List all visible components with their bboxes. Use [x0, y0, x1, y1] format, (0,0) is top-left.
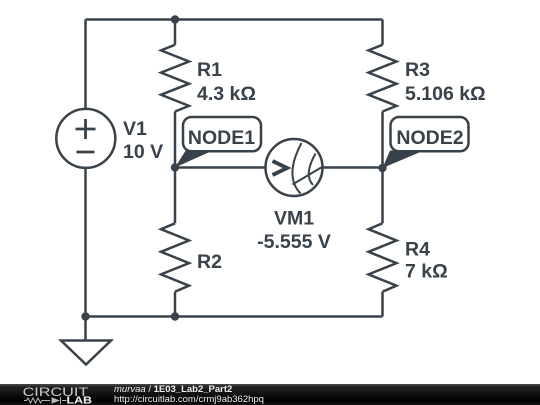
- svg-text:4.3 kΩ: 4.3 kΩ: [197, 83, 256, 105]
- svg-text:-5.555 V: -5.555 V: [257, 231, 331, 253]
- svg-text:R1: R1: [197, 59, 222, 81]
- svg-text:NODE2: NODE2: [396, 127, 463, 149]
- svg-text:VM1: VM1: [274, 208, 314, 230]
- svg-text:R2: R2: [197, 251, 222, 273]
- svg-text:V1: V1: [123, 118, 147, 140]
- svg-text:7 kΩ: 7 kΩ: [405, 261, 448, 283]
- svg-text:NODE1: NODE1: [188, 127, 255, 149]
- svg-text:R4: R4: [405, 239, 430, 261]
- svg-text:LAB: LAB: [67, 396, 92, 405]
- svg-text:5.106 kΩ: 5.106 kΩ: [405, 83, 486, 105]
- svg-text:R3: R3: [405, 59, 430, 81]
- svg-text:10 V: 10 V: [123, 141, 163, 163]
